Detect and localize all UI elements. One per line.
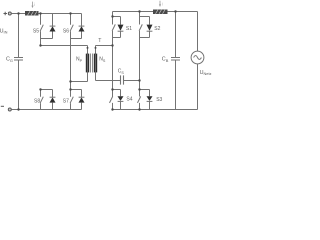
wire S6 loop bottom (71, 38, 82, 40)
node dot bottom rail CG (17, 108, 19, 110)
diode D3 (149, 90, 151, 97)
transformer secondary winding NS (95, 46, 97, 55)
svg-text:S5: S5 (33, 28, 39, 34)
labels (0, 26, 212, 104)
switch S2 (139, 12, 141, 17)
svg-text:S2: S2 (154, 26, 160, 32)
switch S3 (140, 89, 150, 91)
node dot mid rail A (39, 44, 41, 46)
polarity dot NP (87, 47, 89, 49)
junction dots (17, 10, 176, 110)
node dot top rail S5 (39, 12, 41, 14)
inductor grid side (hatched box on top rail) (153, 10, 168, 15)
wire right leg (70, 39, 72, 90)
node plus terminal top-left (4, 12, 12, 15)
AC source U Netz (197, 12, 199, 52)
diode D5 (52, 14, 54, 27)
svg-text:CB: CB (162, 57, 169, 63)
node minus terminal bottom-left (1, 106, 12, 111)
diode D2 (149, 17, 151, 25)
node dot top rail CG (17, 12, 19, 14)
capacitor CS (96, 80, 121, 82)
svg-text:i: i (162, 2, 163, 7)
svg-text:S1: S1 (126, 26, 132, 32)
node dot CS right (138, 79, 140, 81)
node dot S7 loop top (69, 88, 71, 90)
capacitor CB (175, 12, 177, 58)
polarity dot NS (95, 47, 97, 49)
wire bottom rail right (113, 109, 198, 111)
switch S1 (113, 16, 121, 18)
switch S7 (70, 90, 72, 97)
wire bridge2 top rail (113, 11, 198, 13)
capacitor CG (18, 14, 20, 58)
wire secondary top (96, 45, 113, 47)
svg-text:S3: S3 (156, 97, 162, 103)
transformer core (91, 54, 93, 73)
wire bridge2 right leg (139, 38, 141, 90)
switch S6 (70, 14, 72, 25)
switch S8 (40, 90, 42, 97)
switch S5 (40, 14, 42, 25)
svg-text:i: i (34, 2, 35, 7)
current arrow grid (159, 1, 163, 7)
node dot bottom rail S4 (111, 108, 113, 110)
diode D1 (120, 17, 122, 25)
svg-text:UIN: UIN (0, 28, 8, 34)
wire top rail left (DC input to bridge 1) (12, 13, 82, 15)
wire mid rail to primary (41, 45, 88, 47)
node dot primary bottom (69, 80, 71, 82)
node dot S4 loop top (111, 88, 113, 90)
node dot S3 loop top (138, 88, 140, 90)
diode D4 (120, 90, 122, 97)
wire S8 loop top (41, 89, 53, 91)
node dot rail S2 (138, 10, 140, 12)
node dot top rail S6 (69, 12, 71, 14)
svg-text:S4: S4 (126, 97, 132, 103)
wire primary bottom (71, 81, 88, 83)
wire left leg node A (40, 39, 42, 46)
node dot bottom rail S3 (138, 108, 140, 110)
diode D7 (81, 90, 83, 98)
svg-text:S7: S7 (63, 99, 69, 105)
svg-text:S8: S8 (34, 99, 40, 105)
wire bridge2 left leg (112, 38, 114, 90)
wire bottom rail left (12, 109, 82, 111)
switch S4 (113, 89, 121, 91)
diode D8 (52, 90, 54, 98)
diode D6 (81, 14, 83, 27)
node dot S8 loop top (39, 88, 41, 90)
current arrow input (31, 2, 35, 8)
wire S5 loop bottom (41, 38, 53, 40)
svg-text:UNetz: UNetz (200, 70, 212, 76)
inductor input (hatched box on top rail) (25, 11, 39, 16)
node dot S1 top (111, 15, 113, 17)
node dot secondary to S1 leg (111, 44, 113, 46)
transformer T primary winding NP (87, 46, 89, 55)
wire S7 loop top (71, 89, 82, 91)
node dot rail CB (174, 10, 176, 12)
svg-text:CG: CG (6, 57, 13, 63)
svg-text:S6: S6 (63, 28, 69, 34)
